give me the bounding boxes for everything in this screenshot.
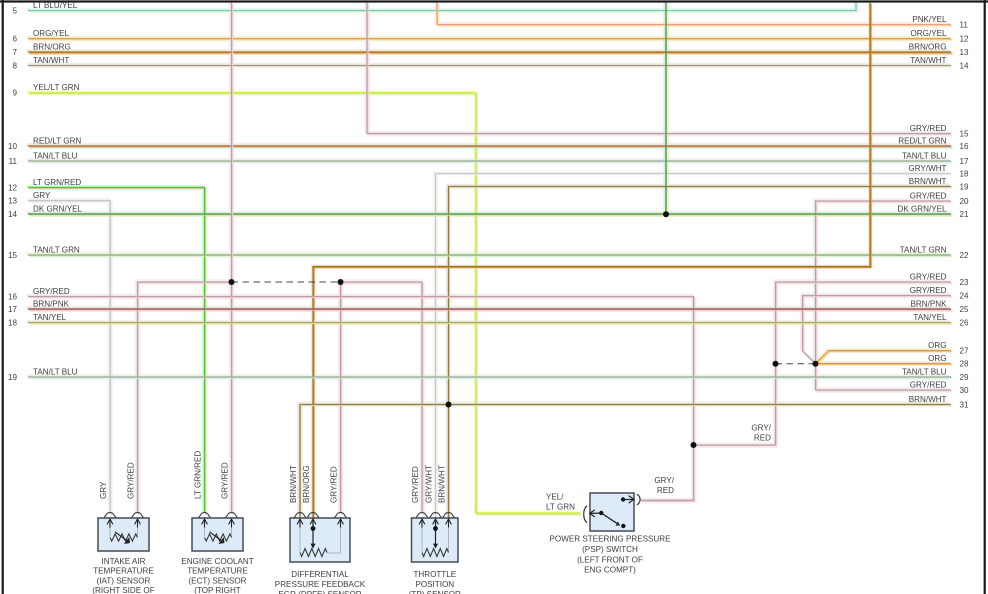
wire 7-13 BRN/ORG bbox=[28, 52, 952, 53]
svg-text:19: 19 bbox=[8, 373, 18, 382]
svg-text:GRY: GRY bbox=[33, 191, 51, 200]
svg-text:(LEFT FRONT OF: (LEFT FRONT OF bbox=[577, 555, 643, 564]
svg-text:POSITION: POSITION bbox=[415, 580, 454, 589]
svg-text:RED: RED bbox=[657, 486, 674, 495]
IAT sensor caption bbox=[92, 557, 154, 594]
svg-text:26: 26 bbox=[960, 319, 970, 328]
svg-text:GRY/RED: GRY/RED bbox=[411, 466, 420, 503]
wire 12 LT GRN/RED bbox=[28, 188, 206, 515]
wire 13 GRY bbox=[28, 201, 111, 515]
svg-text:18: 18 bbox=[960, 170, 970, 179]
svg-text:5: 5 bbox=[12, 7, 17, 16]
svg-text:24: 24 bbox=[960, 292, 970, 301]
wire 5 LT BLU/YEL bbox=[28, 3, 857, 12]
svg-text:PNK/YEL: PNK/YEL bbox=[912, 15, 947, 24]
svg-text:14: 14 bbox=[8, 210, 18, 219]
svg-text:(TOP RIGHT: (TOP RIGHT bbox=[194, 586, 241, 594]
svg-text:TEMPERATURE: TEMPERATURE bbox=[187, 567, 248, 576]
ECT sensor caption bbox=[181, 557, 253, 594]
svg-text:TAN/LT BLU: TAN/LT BLU bbox=[33, 151, 78, 160]
svg-text:LT GRN/RED: LT GRN/RED bbox=[33, 178, 81, 187]
svg-text:11: 11 bbox=[960, 21, 969, 30]
svg-text:GRY/RED: GRY/RED bbox=[910, 191, 947, 200]
svg-text:19: 19 bbox=[960, 183, 970, 192]
svg-text:PRESSURE FEEDBACK: PRESSURE FEEDBACK bbox=[275, 580, 366, 589]
svg-text:15: 15 bbox=[960, 130, 970, 139]
ECT sensor box bbox=[192, 513, 243, 551]
svg-text:17: 17 bbox=[8, 305, 18, 314]
svg-text:RED/LT GRN: RED/LT GRN bbox=[898, 136, 946, 145]
svg-text:GRY/RED: GRY/RED bbox=[221, 462, 230, 499]
wire 28 ORG bbox=[816, 364, 953, 365]
svg-text:BRN/PNK: BRN/PNK bbox=[911, 299, 948, 308]
svg-text:BRN/WHT: BRN/WHT bbox=[909, 177, 947, 186]
svg-text:10: 10 bbox=[8, 142, 18, 151]
wire 16 GRY/RED to PSP bbox=[28, 297, 695, 502]
svg-text:GRY/RED: GRY/RED bbox=[910, 380, 947, 389]
dashed link between GRY/RED risers at right bbox=[776, 363, 816, 365]
svg-text:GRY/RED: GRY/RED bbox=[910, 286, 947, 295]
svg-text:TAN/LT BLU: TAN/LT BLU bbox=[33, 367, 78, 376]
junction dot DK GRN/YEL bbox=[663, 211, 669, 217]
svg-text:RED/LT GRN: RED/LT GRN bbox=[33, 136, 81, 145]
svg-text:11: 11 bbox=[9, 157, 18, 166]
svg-text:16: 16 bbox=[960, 142, 970, 151]
svg-text:14: 14 bbox=[960, 62, 970, 71]
svg-text:TAN/WHT: TAN/WHT bbox=[910, 56, 946, 65]
wire 20 GRY/RED bbox=[816, 201, 953, 391]
svg-text:YEL/: YEL/ bbox=[546, 493, 564, 502]
top border bbox=[0, 0, 988, 2]
svg-text:23: 23 bbox=[960, 278, 970, 287]
wire 10-16 RED/LT GRN bbox=[28, 146, 952, 147]
wire 18 GRY/WHT bbox=[436, 174, 953, 520]
svg-text:22: 22 bbox=[960, 251, 970, 260]
svg-text:(RIGHT SIDE OF: (RIGHT SIDE OF bbox=[92, 586, 154, 594]
wire 9 YEL/LT GRN bbox=[28, 93, 581, 515]
wire 19 BRN/WHT bbox=[449, 187, 953, 520]
svg-text:GRY/RED: GRY/RED bbox=[910, 272, 947, 281]
svg-text:28: 28 bbox=[960, 360, 970, 369]
wire 11 PNK/YEL bbox=[437, 3, 952, 26]
svg-text:20: 20 bbox=[960, 197, 970, 206]
junction dot DPFE GRY/RED bbox=[338, 279, 344, 285]
wire GRY/RED DPFE riser bbox=[341, 282, 342, 514]
svg-text:GRY/: GRY/ bbox=[751, 424, 771, 433]
svg-text:ORG/YEL: ORG/YEL bbox=[911, 29, 947, 38]
svg-text:ENGINE COOLANT: ENGINE COOLANT bbox=[181, 557, 253, 566]
svg-text:(PSP) SWITCH: (PSP) SWITCH bbox=[582, 545, 638, 554]
svg-text:TAN/LT BLU: TAN/LT BLU bbox=[902, 367, 947, 376]
svg-text:GRY/WHT: GRY/WHT bbox=[908, 164, 946, 173]
svg-text:YEL/LT GRN: YEL/LT GRN bbox=[33, 83, 80, 92]
svg-text:DK GRN/YEL: DK GRN/YEL bbox=[33, 204, 83, 213]
svg-text:BRN/ORG: BRN/ORG bbox=[302, 465, 311, 503]
PSP switch box bbox=[584, 493, 640, 531]
TP sensor caption bbox=[409, 570, 461, 594]
svg-text:17: 17 bbox=[960, 157, 970, 166]
wire 8-14 TAN/WHT bbox=[28, 66, 952, 67]
svg-text:TAN/YEL: TAN/YEL bbox=[913, 313, 947, 322]
svg-text:GRY/RED: GRY/RED bbox=[910, 124, 947, 133]
svg-text:LT BLU/YEL: LT BLU/YEL bbox=[33, 1, 78, 10]
svg-text:30: 30 bbox=[960, 386, 970, 395]
svg-text:(IAT) SENSOR: (IAT) SENSOR bbox=[97, 576, 151, 585]
wire 27 ORG bbox=[816, 351, 953, 365]
svg-text:LT GRN/RED: LT GRN/RED bbox=[194, 451, 203, 499]
svg-text:31: 31 bbox=[960, 401, 970, 410]
wire 24 GRY/RED bbox=[803, 296, 953, 365]
svg-text:BRN/WHT: BRN/WHT bbox=[909, 395, 947, 404]
svg-text:27: 27 bbox=[960, 347, 970, 356]
PSP switch caption bbox=[550, 535, 672, 575]
svg-text:THROTTLE: THROTTLE bbox=[413, 570, 456, 579]
DPFE sensor box bbox=[290, 513, 350, 562]
wire 19-29 TAN/LT BLU bbox=[28, 377, 952, 378]
wire BRN/ORG from DPFE to top bbox=[313, 3, 871, 519]
svg-text:BRN/ORG: BRN/ORG bbox=[33, 42, 71, 51]
svg-text:TAN/LT BLU: TAN/LT BLU bbox=[902, 151, 947, 160]
svg-text:LT GRN: LT GRN bbox=[546, 502, 575, 511]
wire 11-17 TAN/LT BLU bbox=[28, 161, 952, 162]
svg-text:ENG COMPT): ENG COMPT) bbox=[584, 566, 636, 575]
svg-text:TAN/YEL: TAN/YEL bbox=[33, 313, 67, 322]
svg-text:25: 25 bbox=[960, 305, 970, 314]
svg-text:9: 9 bbox=[12, 89, 17, 98]
wire 6-12 ORG/YEL bbox=[28, 39, 952, 40]
svg-text:BRN/WHT: BRN/WHT bbox=[289, 465, 298, 503]
svg-text:TAN/LT GRN: TAN/LT GRN bbox=[900, 245, 947, 254]
TP sensor box bbox=[412, 513, 459, 562]
svg-text:EGR (DPFE) SENSOR: EGR (DPFE) SENSOR bbox=[278, 590, 361, 594]
svg-text:BRN/PNK: BRN/PNK bbox=[33, 299, 70, 308]
svg-text:RED: RED bbox=[754, 433, 771, 442]
right border bbox=[984, 0, 986, 594]
svg-text:DIFFERENTIAL: DIFFERENTIAL bbox=[291, 570, 349, 579]
svg-text:GRY/RED: GRY/RED bbox=[127, 462, 136, 499]
IAT sensor box bbox=[98, 513, 149, 551]
junction dot BRN/WHT bbox=[446, 402, 452, 408]
wire DK GRN/YEL riser to top bbox=[665, 3, 667, 214]
svg-text:(TP) SENSOR: (TP) SENSOR bbox=[409, 590, 461, 594]
svg-text:7: 7 bbox=[12, 48, 17, 57]
svg-text:TEMPERATURE: TEMPERATURE bbox=[93, 567, 154, 576]
svg-text:(ECT) SENSOR: (ECT) SENSOR bbox=[188, 576, 246, 585]
junction dot GRY/RED right riser bbox=[813, 361, 819, 367]
junction dot ECT GRY/RED bbox=[229, 279, 235, 285]
wire GRY/RED dashed-row right segment bbox=[341, 282, 424, 514]
wire GRY/RED ECT riser from top bbox=[232, 3, 233, 514]
svg-text:POWER STEERING PRESSURE: POWER STEERING PRESSURE bbox=[550, 535, 672, 544]
wire GRY/RED dashed-row left segment bbox=[138, 282, 233, 514]
wire 31 BRN/WHT bbox=[300, 405, 952, 520]
svg-text:13: 13 bbox=[8, 197, 18, 206]
junction dot GRY/RED PSP riser bbox=[691, 442, 697, 448]
svg-text:ORG/YEL: ORG/YEL bbox=[33, 29, 69, 38]
svg-text:GRY/RED: GRY/RED bbox=[33, 287, 70, 296]
wire 15-22 TAN/LT GRN bbox=[28, 255, 952, 256]
svg-text:12: 12 bbox=[8, 184, 18, 193]
junction dot GRY/RED left riser bbox=[773, 361, 779, 367]
svg-text:GRY/WHT: GRY/WHT bbox=[425, 465, 434, 503]
svg-text:21: 21 bbox=[960, 210, 970, 219]
svg-text:ORG: ORG bbox=[928, 341, 946, 350]
dashed link between ECT and DPFE GRY/RED bbox=[232, 281, 341, 283]
svg-text:16: 16 bbox=[8, 293, 18, 302]
svg-text:GRY/RED: GRY/RED bbox=[330, 466, 339, 503]
wire 14-21 DK GRN/YEL bbox=[28, 214, 952, 215]
svg-text:12: 12 bbox=[960, 35, 970, 44]
svg-text:6: 6 bbox=[12, 35, 17, 44]
wire 23 GRY/RED bbox=[694, 282, 953, 446]
wire 17-25 BRN/PNK bbox=[28, 309, 952, 310]
svg-text:TAN/WHT: TAN/WHT bbox=[33, 56, 69, 65]
svg-text:DK GRN/YEL: DK GRN/YEL bbox=[897, 204, 947, 213]
wire 15 GRY/RED bbox=[367, 3, 952, 135]
svg-text:GRY/: GRY/ bbox=[654, 476, 674, 485]
svg-text:INTAKE AIR: INTAKE AIR bbox=[102, 557, 146, 566]
svg-text:GRY: GRY bbox=[99, 481, 108, 499]
svg-text:29: 29 bbox=[960, 373, 970, 382]
left border bbox=[2, 0, 4, 594]
svg-text:13: 13 bbox=[960, 48, 970, 57]
DPFE sensor caption bbox=[275, 570, 366, 594]
wire 18-26 TAN/YEL bbox=[28, 323, 952, 324]
svg-text:BRN/WHT: BRN/WHT bbox=[438, 465, 447, 503]
svg-text:18: 18 bbox=[8, 319, 18, 328]
svg-text:TAN/LT GRN: TAN/LT GRN bbox=[33, 245, 80, 254]
svg-text:BRN/ORG: BRN/ORG bbox=[909, 42, 947, 51]
svg-text:ORG: ORG bbox=[928, 354, 946, 363]
svg-text:8: 8 bbox=[12, 62, 17, 71]
svg-text:15: 15 bbox=[8, 251, 18, 260]
wire GRY/RED from PSP switch bbox=[641, 500, 695, 501]
